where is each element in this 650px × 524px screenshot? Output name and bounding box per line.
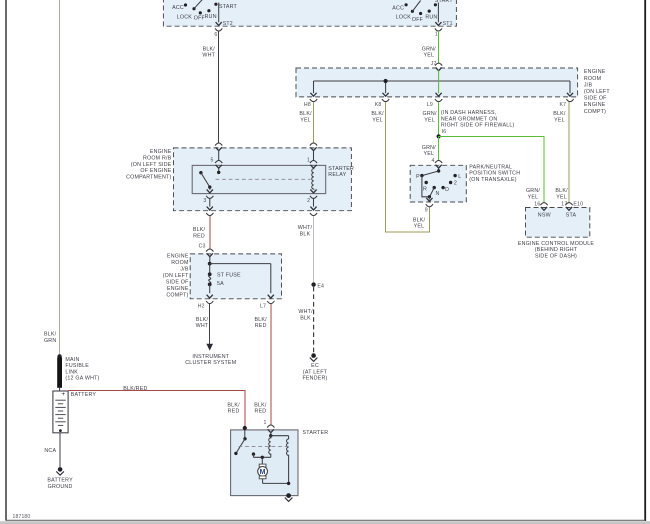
relay coil [312,168,314,190]
svg-text:LOCK: LOCK [396,14,412,20]
svg-text:NCA: NCA [44,448,56,454]
label starter relay [328,166,354,178]
svg-text:M: M [260,469,266,476]
engine room J/B box (ST fuse) [190,254,281,299]
svg-text:ENGINE CONTROL MODULE: ENGINE CONTROL MODULE [518,241,594,247]
svg-text:BLK/: BLK/ [255,317,268,323]
park/neutral position switch box [410,165,466,202]
svg-text:9: 9 [425,208,428,214]
svg-text:RED: RED [255,323,267,329]
PNP pin 4 connector [432,158,443,168]
wire GRN/YEL I6 branch to ECM NSW [439,136,544,202]
svg-text:J7: J7 [431,61,437,67]
svg-text:NEAR GROMMET ON: NEAR GROMMET ON [441,116,497,122]
wire NCA battery to ground [44,433,60,467]
svg-text:BLK/: BLK/ [555,188,568,194]
svg-text:L7: L7 [260,303,266,309]
connector H8 [304,93,317,108]
svg-text:N: N [435,191,439,197]
svg-text:P: P [416,174,420,180]
svg-text:1: 1 [264,420,267,426]
svg-text:5A: 5A [217,281,224,287]
svg-text:ROOM: ROOM [171,260,188,266]
svg-text:YEL: YEL [414,224,425,230]
svg-text:START: START [435,0,454,4]
fuse element [209,274,211,284]
svg-text:16: 16 [534,201,540,207]
svg-text:POSITION SWITCH: POSITION SWITCH [469,171,520,177]
starter relay box [192,165,326,193]
svg-text:MAIN: MAIN [65,357,79,363]
contact dot LOCK left [192,7,195,10]
wire BLK/WHT H2 to instrument cluster [185,304,236,366]
svg-text:YEL: YEL [554,118,565,124]
svg-text:(12 GA WHT): (12 GA WHT) [65,376,99,382]
svg-text:ENGINE: ENGINE [584,69,606,75]
starter case ground [285,493,293,501]
starter hold-in coil [287,436,289,484]
starter battery terminal junction [234,426,247,455]
contact dot ACC left [184,3,187,6]
svg-text:PARK/NEUTRAL: PARK/NEUTRAL [469,164,512,170]
svg-text:L9: L9 [427,102,433,108]
border frame right [644,0,646,521]
svg-text:6: 6 [214,32,217,38]
svg-text:2: 2 [307,198,310,204]
svg-text:ACC: ACC [392,6,404,12]
connector L7 [260,295,274,310]
svg-text:ST2: ST2 [223,21,233,27]
contact dot RUN left [207,9,210,12]
svg-text:BATTERY: BATTERY [47,478,73,484]
svg-text:INSTRUMENT: INSTRUMENT [192,354,229,360]
svg-text:1: 1 [435,32,438,38]
svg-text:FENDER): FENDER) [302,376,327,382]
PNP switch internals [416,168,461,200]
contact dot OFF left [199,11,202,14]
svg-text:L: L [458,174,461,180]
svg-text:ST FUSE: ST FUSE [217,273,241,279]
svg-text:ENGINE: ENGINE [167,254,189,260]
relay pin 2 connector [307,190,317,207]
svg-text:BLK/: BLK/ [254,402,267,408]
ignition switch ST2 section [172,0,237,38]
svg-text:BLK/: BLK/ [413,217,426,223]
J/B internal bus [314,70,571,93]
svg-text:BLK/: BLK/ [203,46,216,52]
wire BLK/RED relay pin3 to C3 [193,216,210,250]
svg-text:RELAY: RELAY [328,172,346,178]
junction I6 [437,134,441,138]
svg-text:RED: RED [254,409,266,415]
wire BLK/GRN from top to fusible link [44,0,60,354]
svg-text:BLK/: BLK/ [299,111,312,117]
svg-text:(ON LEFT: (ON LEFT [584,89,610,95]
svg-text:BLK: BLK [300,231,311,237]
svg-text:5: 5 [211,157,214,163]
svg-text:SIDE OF DASH): SIDE OF DASH) [535,254,577,260]
label engine room J/B (right side) [584,69,610,115]
svg-text:YEL: YEL [528,194,539,200]
connector K7 [559,93,573,108]
engine control module box [526,208,590,238]
svg-text:+: + [61,391,65,398]
relay switch [199,168,220,190]
connector K8 [375,93,389,108]
wire BLK/YEL K7 to ECM STA [553,102,569,202]
border frame bottom [6,519,645,521]
svg-text:3: 3 [203,198,206,204]
svg-text:LOCK: LOCK [177,15,193,21]
svg-text:(BEHIND RIGHT: (BEHIND RIGHT [535,247,578,253]
svg-text:(AT LEFT: (AT LEFT [303,369,328,375]
svg-text:J/B: J/B [584,82,593,88]
svg-text:BATTERY: BATTERY [71,392,97,398]
svg-text:(IN DASH HARNESS,: (IN DASH HARNESS, [441,110,497,116]
svg-text:(ON LEFT SIDE: (ON LEFT SIDE [131,162,172,168]
svg-text:STA: STA [566,213,577,219]
starter main contact arm [236,439,245,454]
connector J7 [435,63,442,71]
svg-text:17: 17 [561,201,567,207]
svg-text:BLK/: BLK/ [44,332,57,338]
ECM terminal names [538,213,577,219]
relay pin 5 connector [211,157,223,168]
connector H2 [198,295,214,310]
svg-text:GRN/: GRN/ [422,46,436,52]
wire WHT/BLK relay pin2 to E4 [298,216,324,289]
svg-text:GRN/: GRN/ [526,188,540,194]
battery ground [47,467,73,490]
starter pin 1 connector [264,420,275,432]
junction E4 [311,282,315,286]
R/B exit connector left [206,207,213,216]
wire stem to ST2 [218,3,220,23]
svg-text:BLK/: BLK/ [196,317,209,323]
svg-text:OFF: OFF [412,17,424,23]
svg-text:WHT: WHT [196,323,209,329]
switch wiper right [412,1,420,12]
wire BLK/RED battery to starter [68,386,245,427]
PNP pin 9 connector [425,198,433,214]
relay pin 3 connector [203,190,213,207]
svg-text:E10: E10 [573,201,583,207]
svg-text:BLK/: BLK/ [371,111,384,117]
wire GRN/YEL I6 to park/neutral switch pin 4 [422,136,439,160]
label engine control module [518,241,594,260]
svg-text:STARTER: STARTER [303,430,329,436]
contact dot LOCK right [411,10,414,13]
svg-text:ENGINE: ENGINE [584,102,606,108]
ECM connector 17 / E10 [561,201,583,210]
svg-text:BLK: BLK [300,315,311,321]
svg-text:SIDE OF: SIDE OF [166,280,189,286]
svg-text:BLK/RED: BLK/RED [123,386,147,392]
connector C3 [206,249,213,257]
engine room J/B box (top) [296,68,578,97]
contact dot START left [214,3,217,6]
svg-text:WHT/: WHT/ [298,225,313,231]
arrow to instrument cluster [206,344,213,351]
relay mechanical link (dashed) [216,178,311,180]
battery [53,391,97,433]
R/B entry connector left [215,143,222,160]
label engine room J/B (left) [163,254,189,299]
contact dot START right [434,3,437,6]
bottom gray band [0,521,650,524]
wire BLK/WHT from ST2 to engine room R/B [202,31,218,143]
svg-text:BLK/: BLK/ [553,111,566,117]
svg-text:C3: C3 [199,244,206,250]
svg-text:ACC: ACC [172,5,184,11]
svg-text:K8: K8 [375,102,382,108]
svg-text:ROOM: ROOM [584,76,601,82]
svg-text:NSW: NSW [538,213,551,219]
bus junction dot [384,79,388,83]
svg-text:H8: H8 [304,102,311,108]
starter mechanical link (dashed) [239,445,291,447]
starter contact to motor node [252,452,271,464]
svg-text:ENGINE: ENGINE [150,149,172,155]
R/B exit connector right [310,207,317,216]
svg-text:EC: EC [311,363,319,369]
label engine room R/B [126,149,172,180]
svg-text:ENGINE: ENGINE [167,286,189,292]
svg-text:R: R [423,187,427,193]
svg-text:RUN: RUN [425,15,437,21]
switch wiper left [194,0,203,9]
svg-text:H2: H2 [198,303,205,309]
svg-text:RED: RED [228,409,240,415]
svg-text:187180: 187180 [13,514,31,520]
svg-text:YEL: YEL [424,118,435,124]
svg-text:YEL: YEL [423,151,434,157]
svg-text:J/B: J/B [180,267,189,273]
svg-text:GROUND: GROUND [48,484,73,490]
wire BLK/YEL K8 to park/neutral switch pin 9 [371,102,429,232]
wire stem to ST1 [437,3,439,23]
contact dot OFF right [419,12,422,15]
svg-text:D: D [445,187,449,193]
svg-text:START: START [219,4,238,10]
connector ST1 [435,22,442,31]
border frame left [5,0,7,521]
svg-text:GRN/: GRN/ [422,145,436,151]
connector L9 [427,93,442,108]
wire GRN/YEL L9 down to node I6 [423,102,515,138]
svg-text:COMPT): COMPT) [166,293,188,299]
svg-text:BLK/: BLK/ [227,402,240,408]
svg-text:RIGHT SIDE OF FIREWALL): RIGHT SIDE OF FIREWALL) [441,123,515,129]
relay pin 1 connector [307,157,317,168]
svg-text:K7: K7 [559,102,566,108]
svg-text:COMPARTMENT): COMPARTMENT) [126,174,171,180]
starter solenoid feed [269,432,289,437]
svg-text:OF ENGINE: OF ENGINE [140,168,171,174]
wire GRN/YEL from ST1 to J7 [422,31,439,67]
battery cells [55,400,65,425]
ground EC [311,353,316,358]
wire WHT/BLK dashed to EC ground [298,287,327,382]
svg-text:(ON TRANSAXLE): (ON TRANSAXLE) [469,177,516,183]
svg-text:2: 2 [454,181,457,187]
svg-text:CLUSTER SYSTEM: CLUSTER SYSTEM [185,360,236,366]
ECM connector 16 [534,201,547,210]
contact dot ACC right [405,3,408,6]
main fusible link [57,354,99,391]
svg-text:COMPT): COMPT) [584,109,606,115]
svg-text:I6: I6 [442,129,447,135]
svg-text:YEL: YEL [372,118,383,124]
starter motor M1 [258,464,291,485]
wire BLK/YEL H8 to relay [299,102,313,143]
R/B entry connector right [310,143,317,160]
ignition switch box (dashed, cut off at top) [163,0,456,26]
svg-text:4: 4 [432,158,435,164]
svg-text:ROOM R/B: ROOM R/B [143,156,172,162]
connector ST2 [215,22,222,31]
svg-text:RED: RED [193,233,205,239]
svg-text:GRN/: GRN/ [423,111,437,117]
contact dot RUN right [428,10,431,13]
svg-text:(ON LEFT: (ON LEFT [163,273,189,279]
svg-text:RUN: RUN [205,14,217,20]
svg-text:YEL: YEL [556,194,567,200]
svg-text:BLK/: BLK/ [193,227,206,233]
starter pull-in coil [269,436,271,458]
starter box [231,430,329,496]
svg-text:GRN: GRN [44,338,56,344]
svg-text:WHT/: WHT/ [298,309,313,315]
svg-text:FUSIBLE: FUSIBLE [65,363,89,369]
svg-text:ST1: ST1 [443,21,453,27]
label park/neutral position switch [469,164,520,183]
svg-text:1: 1 [307,157,310,163]
ST fuse and internal wiring [208,256,271,293]
ignition switch ST1 section [392,0,453,38]
svg-text:YEL: YEL [300,118,311,124]
engine room R/B box (dashed) [174,148,352,211]
svg-text:STARTER: STARTER [328,166,354,172]
svg-text:SIDE OF: SIDE OF [584,96,607,102]
svg-text:E4: E4 [317,283,324,289]
svg-text:LINK: LINK [65,369,78,375]
svg-text:WHT: WHT [202,53,215,59]
svg-text:YEL: YEL [423,53,434,59]
wire BLK/RED L7 to starter pin 1 [254,304,271,425]
